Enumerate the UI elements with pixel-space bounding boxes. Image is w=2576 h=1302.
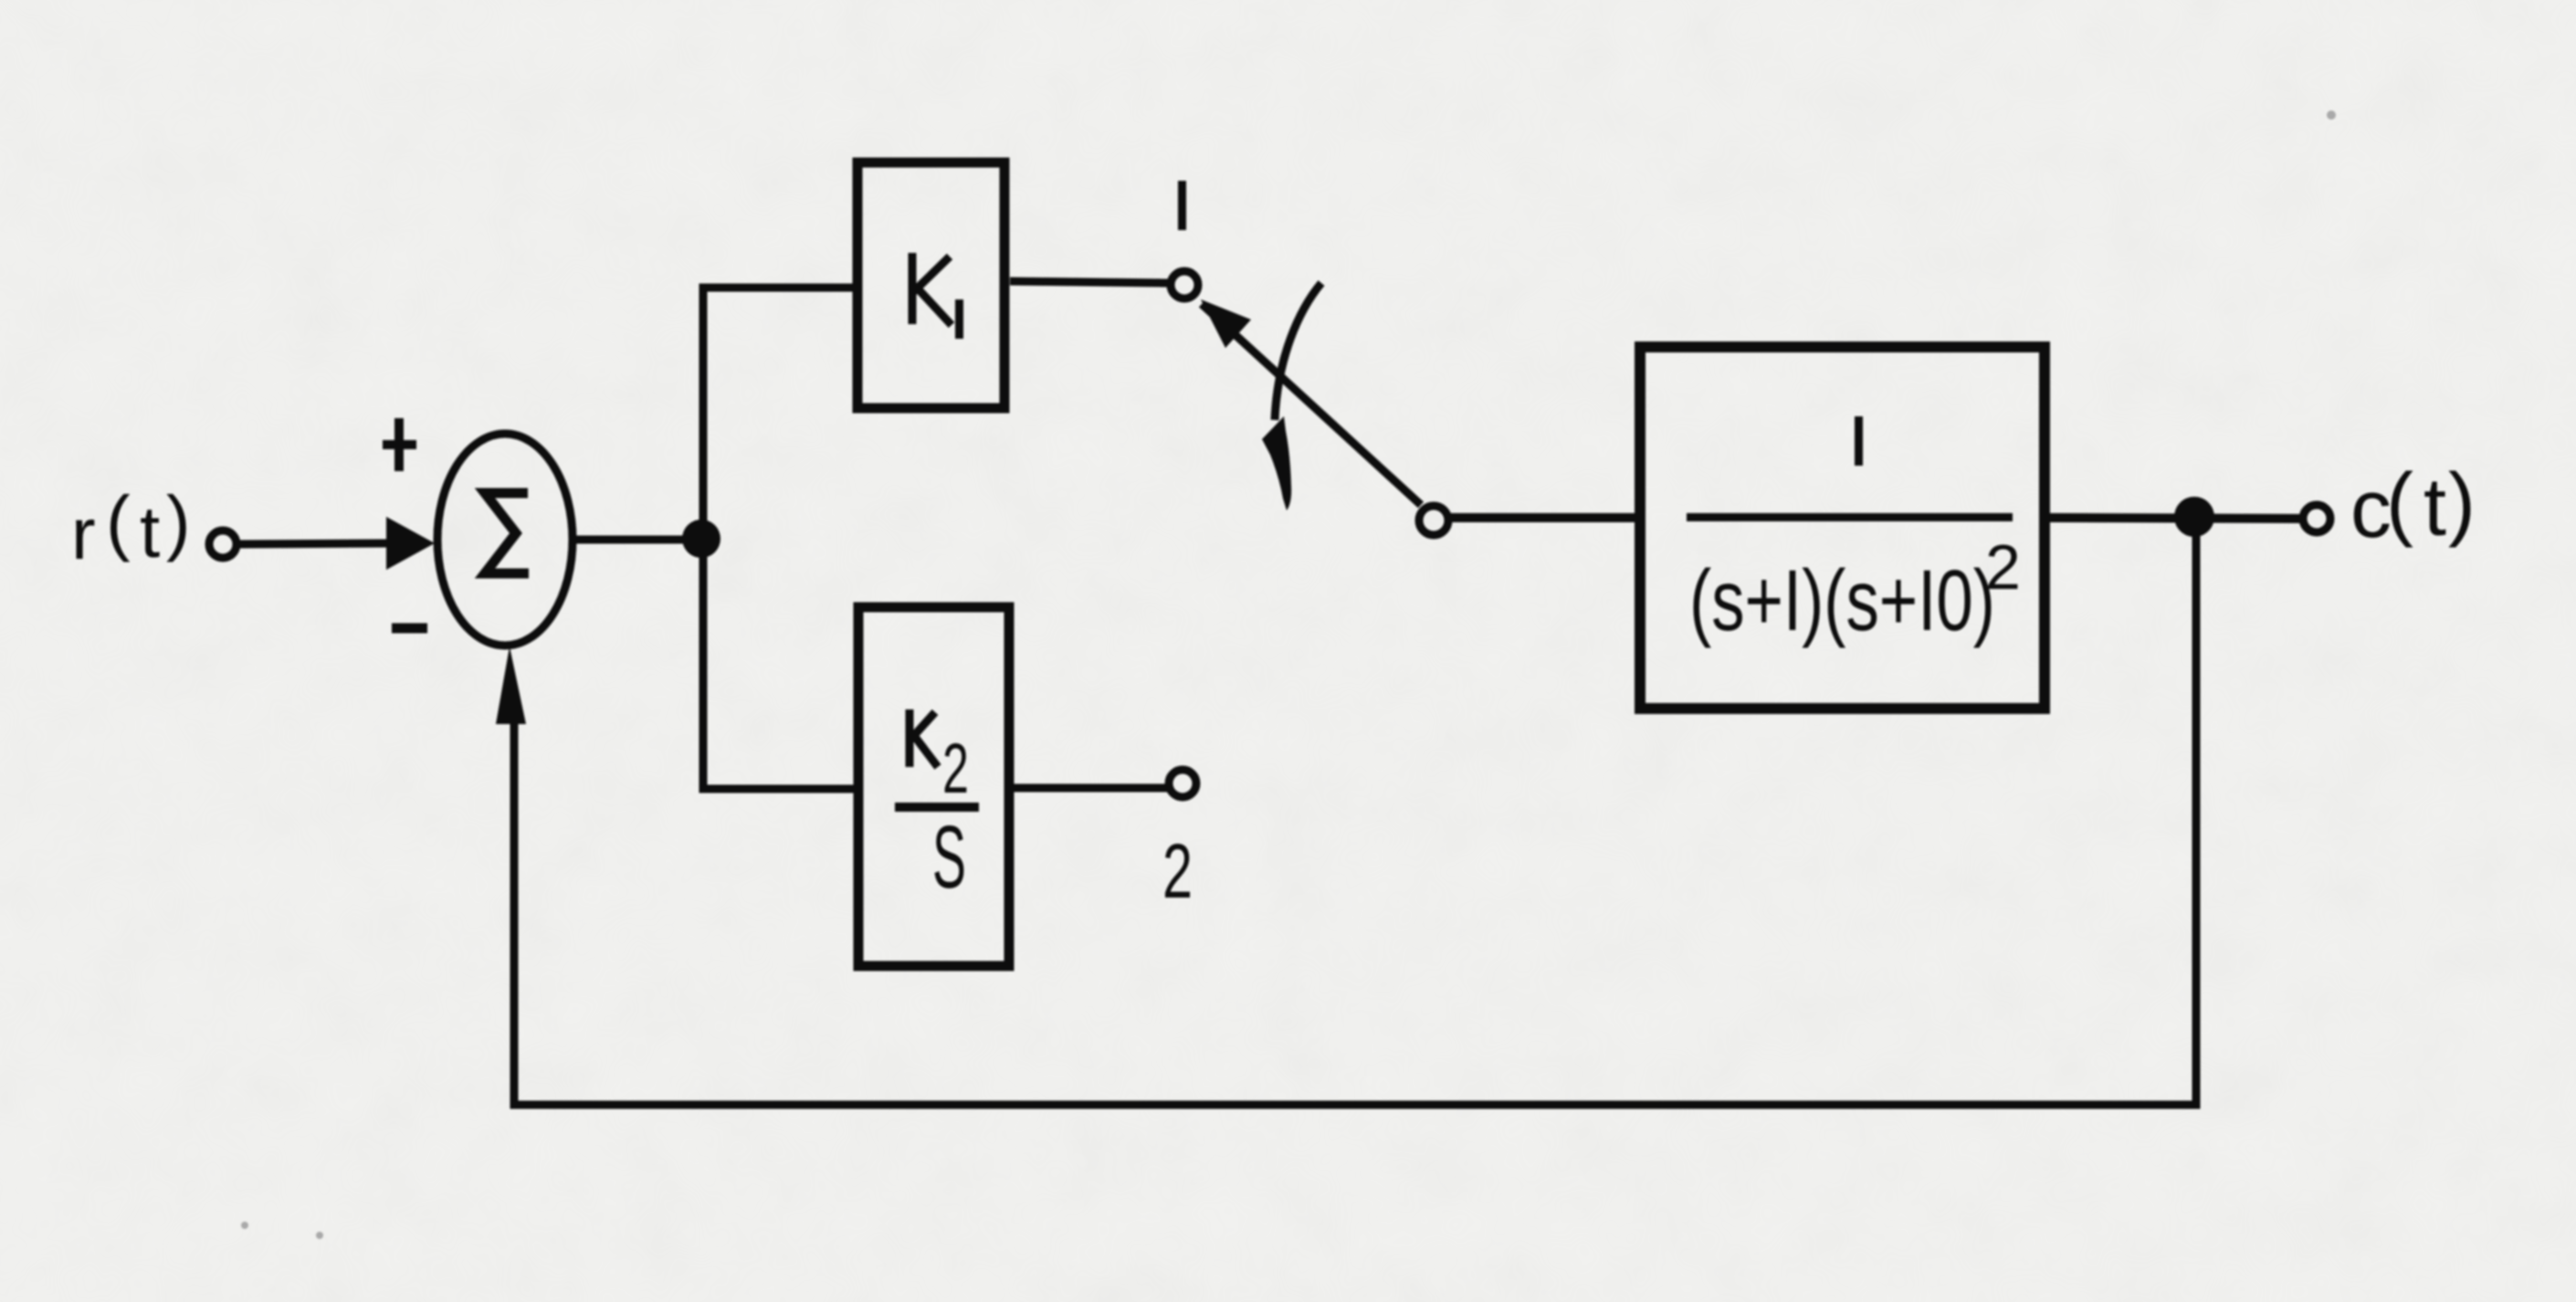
label 1 (contact) xyxy=(1178,181,1186,230)
block K2/S xyxy=(858,607,1009,966)
label K2 over S xyxy=(895,709,979,907)
wire plant to output node xyxy=(2045,518,2302,519)
switch motion arc xyxy=(1275,283,1321,420)
node branch junction xyxy=(682,520,720,558)
wire feedback from output junction xyxy=(514,536,2196,1105)
wire input to summer xyxy=(238,543,391,544)
svg-text:(s+I)(s+I0): (s+I)(s+I0) xyxy=(1689,552,1995,649)
switch pole xyxy=(1419,506,1448,535)
wire K2/S to contact 2 xyxy=(1010,784,1168,793)
wire summer to branch node xyxy=(570,536,687,544)
node output terminal c(t) xyxy=(2303,505,2330,532)
speck artifacts xyxy=(241,110,2336,1239)
wire K1 to contact 1 xyxy=(1010,281,1170,283)
switch contact 2 xyxy=(1169,770,1196,797)
switch arm SW1 xyxy=(1202,304,1421,505)
svg-text:2: 2 xyxy=(1162,828,1193,914)
label plant denominator (s+1)(s+10)^2 xyxy=(1689,531,2021,649)
switch contact 1 xyxy=(1171,271,1198,299)
fraction bar plant xyxy=(1687,513,2013,521)
wire branch node down to K2/S xyxy=(703,539,858,789)
svg-text:c(t): c(t) xyxy=(2350,457,2476,555)
svg-text:2: 2 xyxy=(942,730,969,808)
block K1 xyxy=(857,163,1004,408)
summer U1 (sigma junction) xyxy=(437,434,573,646)
label plus sign xyxy=(383,418,416,471)
svg-text:2: 2 xyxy=(1985,531,2021,603)
node output junction xyxy=(2174,497,2214,537)
block plant G(s) xyxy=(1640,347,2045,709)
node input terminal r(t) xyxy=(209,530,237,558)
wire pole to plant block xyxy=(1450,513,1640,522)
label plant numerator 1 xyxy=(1855,416,1863,466)
label K1 xyxy=(912,253,963,339)
wire branch node up and to K1 xyxy=(703,288,855,541)
svg-text:S: S xyxy=(932,807,966,907)
label minus sign xyxy=(392,624,427,634)
